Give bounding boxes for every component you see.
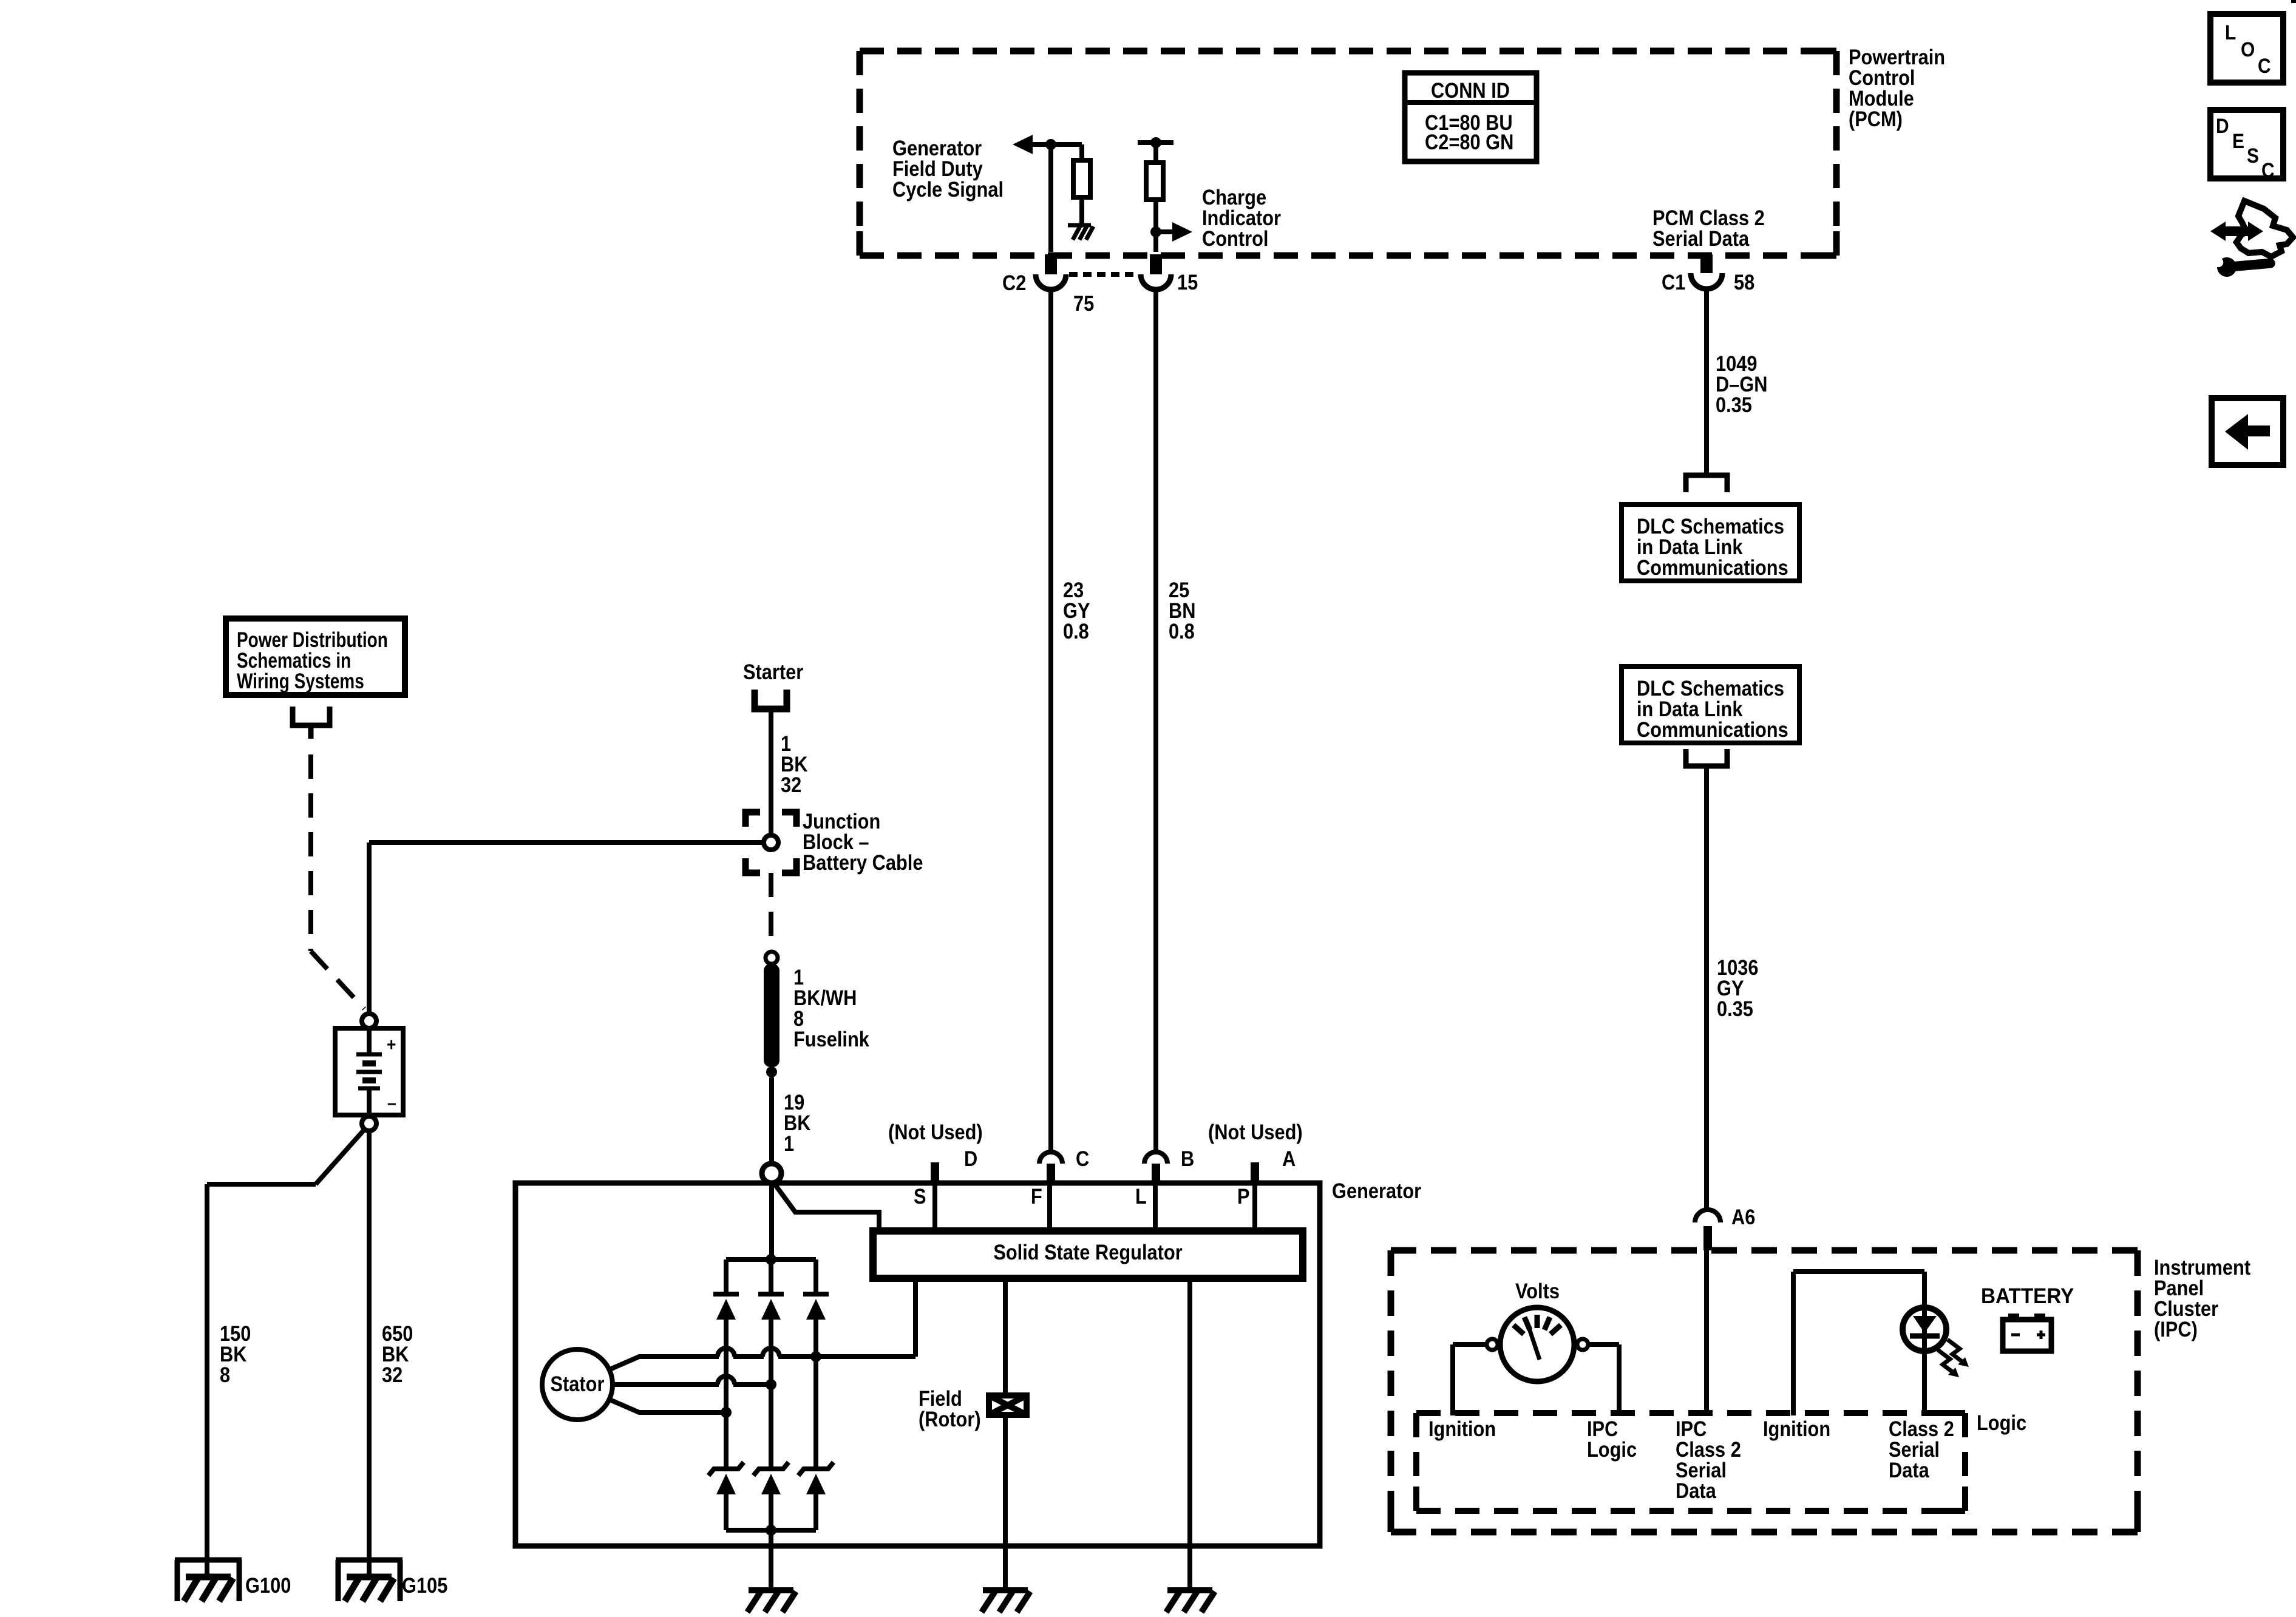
svg-text:Ignition: Ignition [1763, 1417, 1830, 1440]
svg-text:(Not Used): (Not Used) [1208, 1120, 1303, 1144]
svg-text:Generator: Generator [1332, 1179, 1421, 1202]
svg-text:A: A [1282, 1147, 1296, 1170]
svg-text:E: E [2232, 129, 2244, 152]
svg-text:D: D [2216, 114, 2229, 137]
svg-text:O: O [2241, 38, 2255, 61]
svg-text:G105: G105 [402, 1573, 447, 1597]
svg-text:C: C [2258, 54, 2271, 77]
svg-text:B: B [1181, 1147, 1194, 1170]
svg-text:58: 58 [1734, 270, 1754, 294]
svg-text:CONN ID: CONN ID [1431, 78, 1510, 102]
svg-text:Cycle Signal: Cycle Signal [892, 177, 1004, 201]
svg-text:75: 75 [1073, 291, 1094, 315]
svg-text:(Not Used): (Not Used) [888, 1120, 983, 1144]
svg-text:S: S [914, 1184, 926, 1208]
svg-text:C1: C1 [1662, 270, 1685, 294]
svg-text:Battery Cable: Battery Cable [803, 850, 923, 874]
svg-text:A6: A6 [1731, 1205, 1755, 1229]
svg-text:Wiring Systems: Wiring Systems [237, 669, 364, 693]
svg-text:15: 15 [1177, 270, 1198, 294]
svg-text:0.8: 0.8 [1063, 619, 1089, 643]
svg-text:Logic: Logic [1587, 1437, 1637, 1461]
svg-text:L: L [2225, 21, 2236, 44]
svg-text:8: 8 [220, 1363, 230, 1386]
svg-text:L: L [1135, 1184, 1147, 1208]
svg-text:Data: Data [1676, 1479, 1716, 1502]
svg-text:32: 32 [382, 1363, 402, 1386]
svg-text:Volts: Volts [1515, 1279, 1560, 1303]
svg-text:+: + [387, 1034, 396, 1054]
svg-text:C: C [2261, 158, 2275, 181]
svg-text:Serial Data: Serial Data [1652, 226, 1750, 250]
svg-text:D: D [964, 1147, 977, 1170]
svg-text:32: 32 [781, 773, 801, 796]
svg-text:(IPC): (IPC) [2154, 1317, 2198, 1341]
svg-text:F: F [1031, 1184, 1042, 1208]
svg-text:BATTERY: BATTERY [1981, 1284, 2074, 1308]
svg-text:Control: Control [1202, 226, 1268, 250]
svg-text:Starter: Starter [743, 660, 803, 683]
svg-text:0.8: 0.8 [1169, 619, 1195, 643]
svg-text:0.35: 0.35 [1716, 393, 1752, 416]
svg-text:P: P [1237, 1184, 1250, 1208]
svg-text:Fuselink: Fuselink [793, 1027, 870, 1051]
svg-text:Logic: Logic [1977, 1411, 2026, 1434]
svg-text:C: C [1076, 1147, 1089, 1170]
svg-text:(Rotor): (Rotor) [919, 1407, 981, 1431]
svg-text:S: S [2247, 144, 2259, 167]
svg-text:1: 1 [784, 1131, 794, 1155]
svg-text:Communications: Communications [1637, 555, 1788, 579]
svg-text:–: – [387, 1092, 396, 1113]
svg-text:(PCM): (PCM) [1849, 107, 1903, 131]
svg-text:C2: C2 [1002, 271, 1026, 294]
svg-text:G100: G100 [245, 1573, 291, 1597]
svg-text:Communications: Communications [1637, 717, 1788, 741]
svg-text:Data: Data [1889, 1458, 1929, 1482]
svg-text:Stator: Stator [551, 1372, 605, 1395]
svg-text:Ignition: Ignition [1428, 1417, 1496, 1440]
svg-text:0.35: 0.35 [1717, 997, 1753, 1020]
svg-text:Solid State Regulator: Solid State Regulator [993, 1240, 1182, 1264]
svg-text:C2=80 GN: C2=80 GN [1425, 130, 1513, 154]
